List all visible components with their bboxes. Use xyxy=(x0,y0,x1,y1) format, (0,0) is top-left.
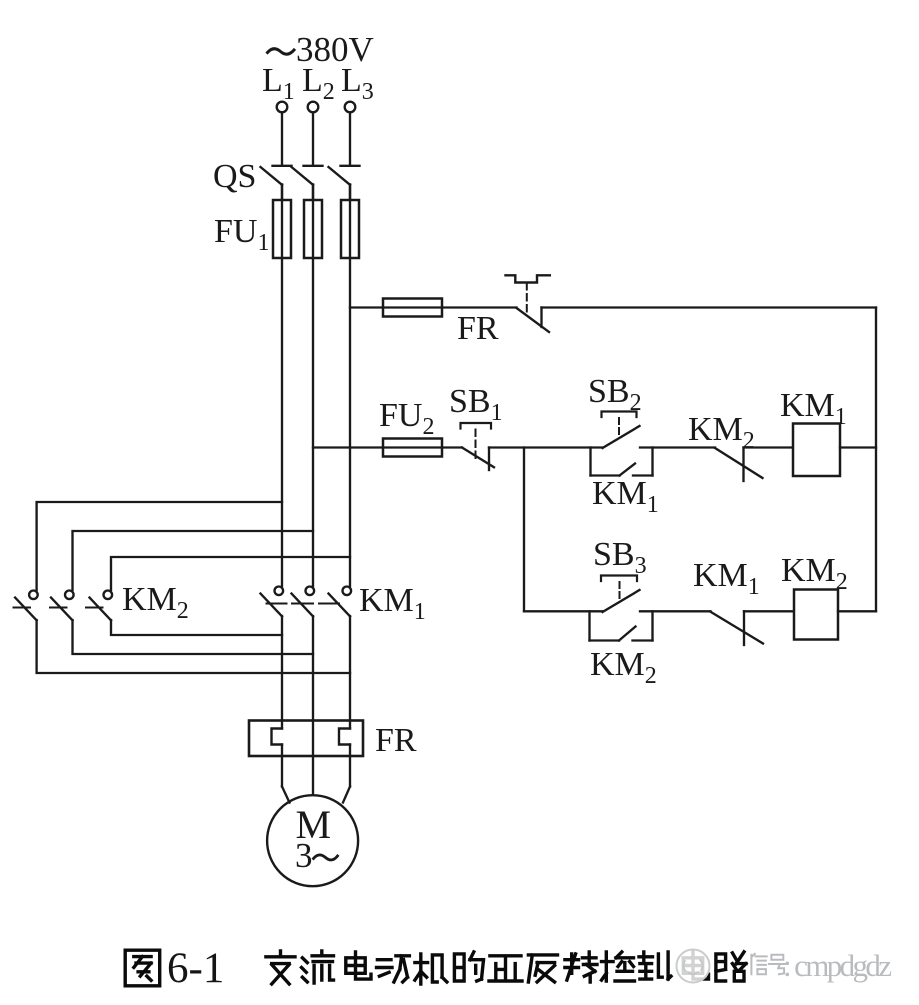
pushbutton SB1 normally-closed xyxy=(442,423,494,470)
node branch T xyxy=(523,448,525,612)
heater element phase 1 xyxy=(272,729,283,745)
label KM1 main xyxy=(359,582,426,625)
label KM2 main xyxy=(122,581,189,624)
switch QS pole 3 xyxy=(329,166,360,200)
wire rung3 to coil xyxy=(744,610,794,612)
svg-text:FU2: FU2 xyxy=(379,397,434,440)
wire KM1 coil out xyxy=(840,446,876,448)
label L3 xyxy=(341,62,374,105)
label FR heater xyxy=(375,722,417,759)
fuse on FR rung xyxy=(383,299,442,317)
label SB3 xyxy=(593,536,647,579)
wire rung2 mid xyxy=(489,446,603,448)
wire rung1 right xyxy=(542,306,877,308)
coil KM2 xyxy=(794,590,838,640)
label KM1 coil xyxy=(780,387,847,430)
wire phase L3 vertical xyxy=(349,185,351,587)
fuse FU1 pole 2 xyxy=(304,200,322,258)
fuse FU1 pole 3 xyxy=(341,200,359,258)
fuse FU1 pole 1 xyxy=(273,200,291,258)
svg-text:SB3: SB3 xyxy=(593,536,647,579)
contact KM1 main pole 1 xyxy=(261,587,284,617)
terminal L2 xyxy=(308,102,319,113)
label ~380V supply voltage xyxy=(268,30,374,69)
wire rung3 left xyxy=(524,610,603,612)
wire L1 drop xyxy=(281,113,283,165)
wire L3 lower xyxy=(349,616,351,787)
svg-text:FR: FR xyxy=(457,310,499,347)
label FR contact xyxy=(457,310,499,347)
svg-text:SB2: SB2 xyxy=(588,373,642,416)
svg-text:L1: L1 xyxy=(262,62,295,105)
svg-text:6-1: 6-1 xyxy=(167,945,224,992)
wire phase L2 vertical xyxy=(312,185,314,587)
svg-text:KM1: KM1 xyxy=(693,557,760,600)
contact KM1 main pole 2 xyxy=(292,587,315,617)
contact KM2 auxiliary NO (self-hold) xyxy=(590,611,653,640)
svg-text:KM1: KM1 xyxy=(592,475,659,518)
svg-text:KM2: KM2 xyxy=(590,646,657,689)
wire rung2 from L2 xyxy=(313,446,383,448)
contact FR normally-closed xyxy=(442,308,549,333)
caption 图6-1 交流电动机的正反转控制电路 xyxy=(125,945,746,992)
label FU2 xyxy=(379,397,434,440)
terminal L3 xyxy=(345,102,356,113)
label KM2 coil xyxy=(781,552,848,595)
contact KM2 main pole 3 xyxy=(90,591,113,621)
svg-text:KM2: KM2 xyxy=(122,581,189,624)
svg-text:KM1: KM1 xyxy=(359,582,426,625)
wire KM2 feed 2 xyxy=(73,531,314,590)
terminal L1 xyxy=(277,102,288,113)
wire right rail xyxy=(875,308,877,612)
wire rung3 after SB3 xyxy=(640,610,711,612)
wire KM2 feed 3 xyxy=(111,557,350,590)
wire L3 drop xyxy=(349,113,351,165)
wire L2 drop xyxy=(312,113,314,165)
label KM2 interlock rung2 xyxy=(688,411,755,454)
label KM1 interlock rung3 xyxy=(693,557,760,600)
contact KM2 main pole 1 xyxy=(15,591,38,621)
motor M 3-phase xyxy=(267,787,358,887)
thermal overload marker FR xyxy=(506,275,550,315)
svg-text:: cmpdgdz: : cmpdgdz xyxy=(783,948,892,983)
wire KM2 out 3 crossover xyxy=(111,620,282,635)
svg-text:FR: FR xyxy=(375,722,417,759)
wire L1 lower xyxy=(281,616,283,787)
label L2 xyxy=(302,62,335,105)
label KM2 aux xyxy=(590,646,657,689)
linkage KM1 dashed xyxy=(267,603,340,605)
contact KM1 normally-closed interlock xyxy=(711,611,764,645)
heater element phase 3 xyxy=(339,729,350,745)
fuse FU2 xyxy=(383,439,442,457)
wire KM2 out 1 crossover xyxy=(37,620,350,673)
wire L2 lower xyxy=(312,616,314,795)
label L1 xyxy=(262,62,295,105)
label FU1 xyxy=(214,213,269,256)
wire rung2 after SB2 xyxy=(640,446,715,448)
label SB1 xyxy=(449,383,503,426)
switch QS pole 2 xyxy=(292,166,323,200)
svg-text:FU1: FU1 xyxy=(214,213,269,256)
svg-text:3: 3 xyxy=(295,836,313,875)
coil KM1 xyxy=(793,424,840,477)
watermark wechat id cmpdgdz xyxy=(677,948,893,983)
contact KM1 main pole 3 xyxy=(329,587,352,617)
svg-text:QS: QS xyxy=(213,158,256,195)
wire KM2 feed 1 xyxy=(37,502,282,590)
wire phase L1 vertical xyxy=(281,185,283,587)
linkage KM2 dashed xyxy=(14,607,103,609)
wire rung1 left xyxy=(350,306,383,308)
svg-text:SB1: SB1 xyxy=(449,383,503,426)
thermal relay FR box xyxy=(249,721,363,757)
label QS xyxy=(213,158,256,195)
label KM1 aux xyxy=(592,475,659,518)
pushbutton SB2 normally-open xyxy=(602,412,640,449)
wire KM2 coil out xyxy=(838,610,876,612)
switch QS pole 1 xyxy=(261,166,292,200)
label SB2 xyxy=(588,373,642,416)
wire KM2 out 2 xyxy=(73,620,314,654)
contact KM1 auxiliary NO (self-hold) xyxy=(591,448,653,476)
pushbutton SB3 normally-open xyxy=(601,576,640,613)
wire rung2 to coil xyxy=(744,446,794,448)
contact KM2 normally-closed interlock xyxy=(715,448,763,482)
contact KM2 main pole 2 xyxy=(51,591,74,621)
